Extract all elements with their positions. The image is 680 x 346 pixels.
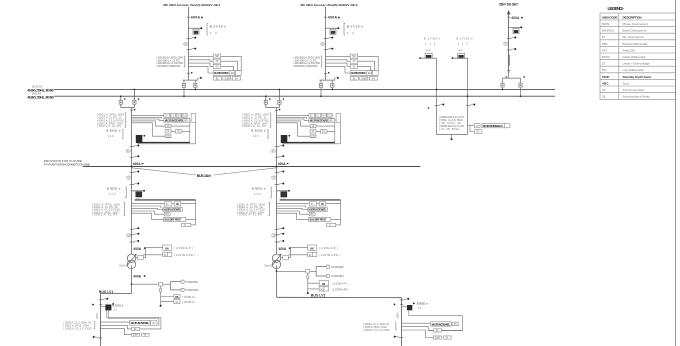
svg-text:( CL 3P, 50VA: ( CL 3P, 50VA xyxy=(439,127,459,131)
svg-text:B 50/51 e: B 50/51 e xyxy=(417,301,429,305)
svg-text:Synchrocheck Relay: Synchrocheck Relay xyxy=(623,95,651,99)
svg-text:1 2 3: 1 2 3 xyxy=(425,42,436,46)
svg-text:400A: 400A xyxy=(511,16,520,20)
svg-text:a-c: a-c xyxy=(459,49,464,52)
svg-text:Trafo Diff: Trafo Diff xyxy=(623,48,635,52)
svg-text:50/51: 50/51 xyxy=(602,22,610,26)
svg-text:MULTIFUNCTION REL: MULTIFUNCTION REL xyxy=(131,322,150,325)
svg-text:MULTIFUNCTION REL: MULTIFUNCTION REL xyxy=(432,323,451,326)
svg-text:Dir. Overcurrent: Dir. Overcurrent xyxy=(623,35,644,39)
svg-text:25: 25 xyxy=(602,95,606,99)
svg-text:( 1/23TM A-PD ): ( 1/23TM A-PD ) xyxy=(332,287,349,291)
svg-text:( 1/23M A ): ( 1/23M A ) xyxy=(182,300,195,304)
svg-text:67: 67 xyxy=(602,35,606,39)
svg-text:Standby Earth Fault: Standby Earth Fault xyxy=(623,75,651,79)
svg-text:( 1/23M A-P ): ( 1/23M A-P ) xyxy=(332,282,348,286)
svg-text:400A: 400A xyxy=(133,275,141,279)
svg-text:TO 400V SB-1: TO 400V SB-1 xyxy=(185,280,199,284)
svg-text:50N/51N: 50N/51N xyxy=(602,29,614,33)
svg-text:Trip Circuit Supv: Trip Circuit Supv xyxy=(623,88,646,92)
svg-text:TO 400V SB-2: TO 400V SB-2 xyxy=(185,288,199,292)
svg-text:87/50: 87/50 xyxy=(602,55,610,59)
svg-text:LEGEND:-: LEGEND:- xyxy=(608,6,625,11)
svg-text:TO 400V SB-3: TO 400V SB-3 xyxy=(331,265,345,269)
svg-text:50BF: 50BF xyxy=(435,338,441,340)
svg-text:400A: 400A xyxy=(395,313,398,319)
svg-text:ANSI CODE: ANSI CODE xyxy=(602,15,618,19)
svg-text:MV 33kV Incomer- Bus(B) 33/11k: MV 33kV Incomer- Bus(B) 33/11kV 1/E-2 xyxy=(301,3,358,7)
svg-text:a-c: a-c xyxy=(426,49,431,52)
svg-text:PV PLANT INTERCONNECTION LINE: PV PLANT INTERCONNECTION LINE xyxy=(44,163,90,167)
svg-text:DESCRIPTION: DESCRIPTION xyxy=(623,15,642,19)
svg-text:Line Differential: Line Differential xyxy=(623,68,644,72)
svg-text:Cable Differential: Cable Differential xyxy=(623,55,646,59)
svg-text:87B: 87B xyxy=(602,42,607,46)
svg-text:(P): (P) xyxy=(454,323,458,326)
svg-text:ABC: ABC xyxy=(602,81,609,85)
svg-text:86: 86 xyxy=(175,295,179,299)
svg-text:BUS LV2: BUS LV2 xyxy=(311,294,326,298)
svg-text:Busbar Differential: Busbar Differential xyxy=(623,42,648,46)
svg-text:B 27/59 e: B 27/59 e xyxy=(424,37,441,41)
svg-text:( 100/5 A, CL 0.5, FS10: ( 100/5 A, CL 0.5, FS10 xyxy=(63,327,92,330)
svg-text:86: 86 xyxy=(322,282,326,286)
svg-text:27: 27 xyxy=(602,62,606,66)
svg-text:(P): (P) xyxy=(152,322,156,325)
svg-text:Earth Overcurrent: Earth Overcurrent xyxy=(623,29,647,33)
svg-text:87L: 87L xyxy=(602,68,607,72)
svg-text:87T: 87T xyxy=(602,48,607,52)
svg-text:TO 400V SB-4: TO 400V SB-4 xyxy=(331,274,345,278)
svg-text:46.8kV, 50Hz, 3P,4W: 46.8kV, 50Hz, 3P,4W xyxy=(27,95,54,99)
svg-text:Phase Overcurrent: Phase Overcurrent xyxy=(623,22,648,26)
svg-text:( 100/5 A, CL 0.5, FS10: ( 100/5 A, CL 0.5, FS10 xyxy=(363,329,390,332)
svg-text:B 50/51 e: B 50/51 e xyxy=(112,304,124,308)
svg-text:B 27/59 e: B 27/59 e xyxy=(457,37,474,41)
svg-text:Under / Overvoltage: Under / Overvoltage xyxy=(623,62,650,66)
svg-text:25kV DG SET: 25kV DG SET xyxy=(499,2,518,6)
svg-text:51NF: 51NF xyxy=(602,75,610,79)
svg-text:BUS 11kV: BUS 11kV xyxy=(197,174,212,178)
svg-text:400A: 400A xyxy=(95,313,98,319)
svg-text:Sync: Sync xyxy=(623,81,630,85)
svg-text:1 2: 1 2 xyxy=(418,306,422,310)
svg-text:( 1/23M A ): ( 1/23M A ) xyxy=(182,295,195,299)
svg-text:1 2 3: 1 2 3 xyxy=(458,42,469,46)
svg-text:50BF: 50BF xyxy=(133,335,139,337)
svg-text:1 2: 1 2 xyxy=(113,307,117,311)
svg-text:MULTIFUNCTION RELAY: MULTIFUNCTION RELAY xyxy=(483,125,503,128)
svg-text:MV 33kV Incomer- Bus(A) 33/11k: MV 33kV Incomer- Bus(A) 33/11kV 1/E-1 xyxy=(164,3,221,7)
svg-text:79: 79 xyxy=(602,88,606,92)
